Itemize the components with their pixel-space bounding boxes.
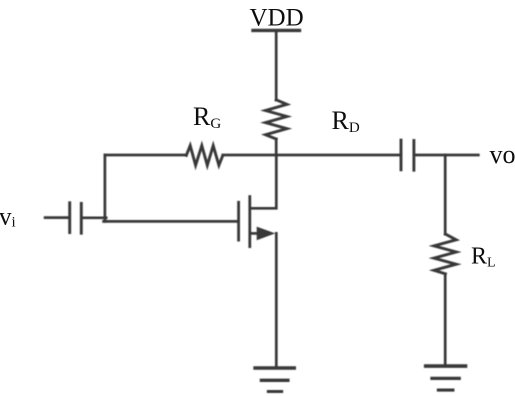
- resistor RG: [186, 146, 223, 166]
- wire drain rail right segment to output capacitor: [223, 154, 400, 157]
- wire vo junction down to RL: [444, 155, 447, 234]
- wire VDD to RD: [275, 32, 278, 101]
- svg-text:vo: vo: [490, 140, 515, 169]
- label vi: [0, 203, 16, 230]
- ground center bar2: [261, 379, 288, 382]
- wire input stub: [45, 216, 68, 219]
- transistor Q1 source lead: [251, 232, 259, 235]
- svg-text:VDD: VDD: [250, 4, 304, 31]
- resistor RD: [266, 100, 287, 139]
- ground right bar2: [432, 377, 459, 380]
- ground right bar1: [426, 364, 466, 368]
- ground center bar3: [268, 390, 281, 393]
- capacitor C2 output coupling right plate: [412, 141, 415, 171]
- wire RL to ground: [444, 274, 447, 366]
- transistor Q1 channel bar: [248, 197, 251, 247]
- wire junction to gate: [104, 220, 239, 223]
- transistor Q1 source arrow: [257, 227, 274, 239]
- svg-text:vi: vi: [0, 203, 16, 230]
- wire C2 to vo: [415, 154, 478, 157]
- resistor RL: [434, 234, 456, 274]
- wire drain rail left segment: [105, 154, 186, 157]
- svg-text:RD: RD: [332, 106, 360, 136]
- svg-text:RL: RL: [471, 243, 496, 270]
- ground right bar3: [438, 389, 453, 392]
- transistor Q1 drain lead: [251, 155, 276, 208]
- capacitor C2 output coupling left plate: [400, 140, 403, 170]
- wire source to ground: [275, 233, 278, 367]
- net label VDD: [250, 4, 304, 31]
- power rail VDD bar: [253, 29, 300, 32]
- label RL: [471, 243, 496, 270]
- ground center bar1: [255, 366, 294, 370]
- capacitor C1 input coupling left plate: [68, 203, 71, 233]
- wire left feedback vertical: [104, 155, 107, 221]
- wire RD to drain rail: [275, 139, 278, 155]
- capacitor C1 input coupling right plate: [80, 203, 83, 233]
- transistor Q1 gate bar: [237, 202, 240, 240]
- label RD: [332, 106, 360, 136]
- label vo: [490, 140, 515, 169]
- label RG: [193, 102, 221, 132]
- svg-text:RG: RG: [193, 102, 221, 132]
- wire C1 to junction: [83, 216, 106, 219]
